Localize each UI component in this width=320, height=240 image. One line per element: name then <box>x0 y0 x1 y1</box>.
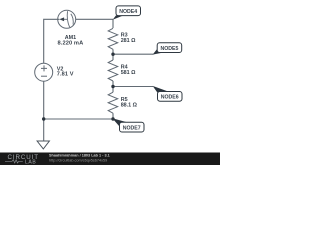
junction dot R4-R5 <box>111 85 114 88</box>
svg-text:281 Ω: 281 Ω <box>121 38 136 44</box>
wire: NODE5 stub <box>113 53 153 55</box>
junction dot R5-bottom <box>111 117 114 120</box>
wire: right rail top to R3 <box>112 19 114 28</box>
node NODE4 <box>116 6 141 16</box>
junction dot R3-R4 <box>111 53 114 56</box>
node NODE6 <box>158 92 183 102</box>
wire: V2 bottom to ground <box>43 81 45 141</box>
svg-text:NODE6: NODE6 <box>161 95 179 101</box>
wire: NODE6 stub <box>113 86 153 88</box>
resistor R3 <box>108 28 118 49</box>
node NODE5 <box>157 43 182 53</box>
wire: R4 bottom to R5 top <box>112 81 114 92</box>
svg-text:Shaahimrahman / 1803 Lab 1 - 3: Shaahimrahman / 1803 Lab 1 - 3.1 <box>49 153 110 157</box>
svg-text:7.81 V: 7.81 V <box>57 72 74 78</box>
wire: ammeter right to node junction <box>76 18 113 20</box>
ground <box>37 141 49 149</box>
ammeter AM1 <box>58 10 76 28</box>
node NODE7 <box>120 122 145 132</box>
svg-text:NODE7: NODE7 <box>123 126 141 132</box>
junction dot bottom-left <box>42 117 45 120</box>
wire: R5 bottom to bottom junction <box>112 113 114 119</box>
wire: bottom rail to left <box>44 118 113 120</box>
resistor R5 <box>108 92 118 113</box>
svg-text:NODE4: NODE4 <box>119 9 137 15</box>
voltage source V2 <box>35 63 53 81</box>
svg-text:LAB: LAB <box>25 160 36 166</box>
wire: V2 top to corner to ammeter left <box>44 19 60 63</box>
node NODE6 flag pointer <box>153 86 169 93</box>
node NODE7 flag pointer <box>112 118 127 127</box>
node NODE5 flag pointer <box>153 49 164 55</box>
svg-text:581 Ω: 581 Ω <box>121 70 136 76</box>
footer bar <box>0 153 220 166</box>
node NODE4 flag pointer <box>113 15 124 19</box>
wire: R3 bottom to R4 top <box>112 49 114 60</box>
resistor R4 <box>108 60 118 81</box>
svg-text:8.220 mA: 8.220 mA <box>58 40 84 46</box>
svg-text:88.1 Ω: 88.1 Ω <box>121 102 138 108</box>
footer logo LAB <box>5 160 23 163</box>
svg-text:http://circuitlab.com/c6qv5s67: http://circuitlab.com/c6qv5s674x59 <box>49 158 107 162</box>
svg-text:NODE5: NODE5 <box>160 46 178 52</box>
ammeter arrow head <box>59 17 64 21</box>
